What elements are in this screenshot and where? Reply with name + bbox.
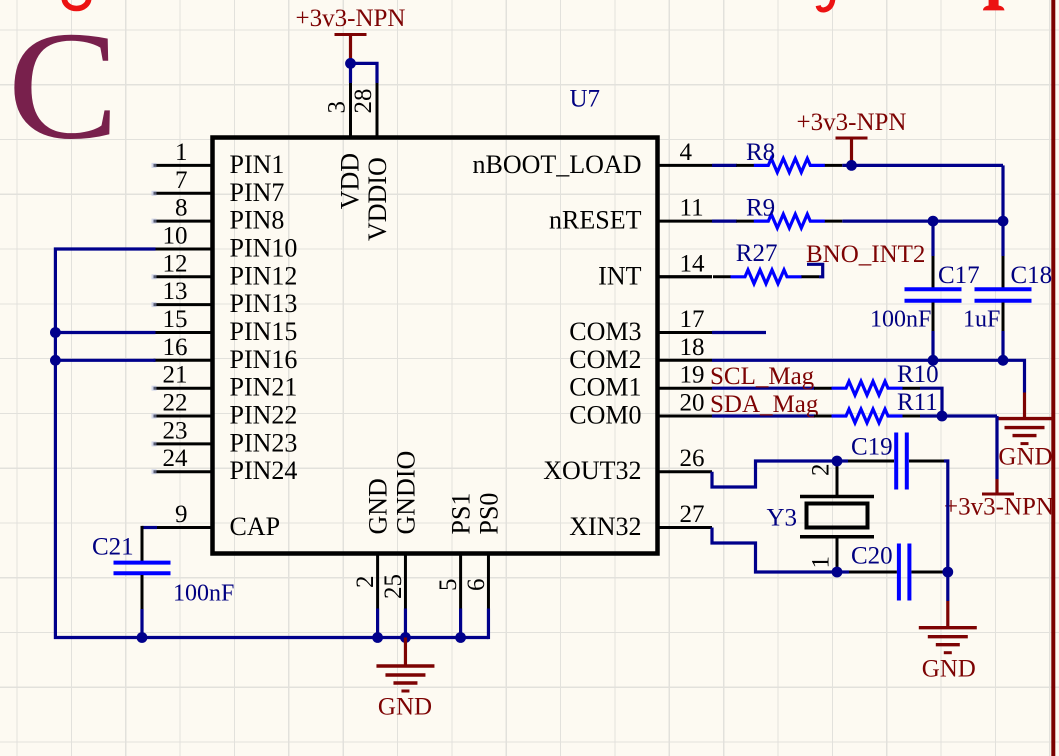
svg-text:+3v3-NPN: +3v3-NPN: [797, 109, 907, 136]
svg-text:PIN12: PIN12: [230, 261, 298, 290]
svg-text:14: 14: [680, 250, 706, 277]
power port +3v3-NPN (top): [296, 5, 406, 60]
svg-text:R10: R10: [897, 361, 939, 388]
svg-text:11: 11: [680, 195, 704, 222]
wire CAP pin to C21: [142, 526, 157, 562]
wire XOUT32 to crystal: [712, 461, 837, 487]
svg-text:BNO_INT2: BNO_INT2: [806, 241, 925, 268]
svg-text:16: 16: [163, 334, 188, 361]
svg-text:C21: C21: [92, 534, 134, 561]
IC U7 body: [213, 138, 658, 554]
wire BNO_INT2 hook: [807, 264, 823, 277]
svg-text:VDDIO: VDDIO: [363, 157, 392, 241]
wire R11 to +3v3: [920, 414, 997, 417]
svg-text:28: 28: [350, 89, 377, 114]
svg-text:23: 23: [163, 417, 188, 444]
svg-text:100nF: 100nF: [870, 307, 931, 333]
pin 10 PIN10: [154, 223, 298, 263]
pin 28 VDDIO: [350, 83, 392, 241]
wire PIN10 net (vertical rail): [55, 249, 488, 638]
junction COM2/C17: [928, 355, 939, 366]
svg-text:1uF: 1uF: [963, 307, 1000, 333]
svg-text:GND: GND: [378, 694, 432, 721]
svg-text:COM1: COM1: [569, 373, 641, 402]
pin 19 COM1: [569, 362, 712, 402]
pin 23 PIN23: [152, 417, 298, 457]
svg-text:R9: R9: [746, 195, 775, 222]
pin 15 PIN15: [154, 306, 298, 346]
junction R8/+3v3: [846, 160, 857, 171]
svg-text:9: 9: [175, 501, 188, 528]
wire pin25 to bus: [404, 609, 407, 638]
junction nRESET/C18: [998, 216, 1009, 227]
wire pin5 to bus: [459, 609, 462, 638]
svg-text:PIN24: PIN24: [230, 456, 298, 485]
svg-text:GND: GND: [998, 444, 1052, 471]
designator C19: [851, 434, 893, 461]
svg-text:10: 10: [163, 223, 188, 250]
pin 24 PIN24: [152, 445, 298, 485]
svg-text:PIN16: PIN16: [230, 345, 298, 374]
capacitor C17: [905, 289, 962, 301]
svg-text:GNDIO: GNDIO: [391, 451, 420, 535]
junction C20/GND: [942, 567, 953, 578]
C18 top lead: [1001, 221, 1004, 287]
svg-text:COM0: COM0: [569, 401, 641, 430]
designator R10: [897, 361, 939, 388]
svg-text:2: 2: [352, 576, 379, 589]
value 100nF (C21): [173, 581, 234, 607]
svg-text:24: 24: [163, 445, 189, 472]
pin 14 INT: [598, 250, 712, 290]
svg-text:XIN32: XIN32: [569, 512, 641, 541]
crystal pin number 2: [808, 464, 835, 477]
wire down to nRESET net: [1001, 165, 1004, 221]
svg-text:17: 17: [680, 306, 705, 333]
svg-text:COM3: COM3: [569, 317, 641, 346]
svg-text:R11: R11: [897, 389, 938, 416]
pin 12 PIN12: [152, 250, 298, 290]
power port +3v3-NPN (pullups): [944, 479, 1054, 521]
resistor R8: [736, 159, 842, 173]
svg-text:13: 13: [163, 278, 188, 305]
pin 26 XOUT32: [543, 445, 712, 485]
svg-text:C19: C19: [851, 434, 893, 461]
svg-text:GND: GND: [922, 656, 976, 683]
svg-text:+3v3-NPN: +3v3-NPN: [944, 494, 1054, 521]
pin 6 PS0: [463, 493, 504, 609]
pin 4 nBOOT_LOAD: [473, 139, 713, 179]
pin 11 nRESET: [549, 195, 712, 235]
designator R8: [746, 139, 775, 166]
resistor R11: [814, 409, 920, 423]
svg-text:PIN15: PIN15: [230, 317, 298, 346]
pin 7 PIN7: [152, 167, 285, 207]
svg-text:18: 18: [680, 334, 705, 361]
svg-text:GND: GND: [364, 478, 393, 534]
junction pin25/bus: [400, 632, 411, 643]
svg-text:VDD: VDD: [336, 153, 365, 209]
pin 2 GND: [352, 478, 393, 608]
svg-text:PIN23: PIN23: [230, 428, 298, 457]
power port +3v3-NPN (R8): [797, 109, 907, 162]
resistor R10: [814, 381, 920, 395]
pin 20 COM0: [569, 390, 712, 430]
designator C18: [1011, 262, 1053, 289]
svg-text:COM2: COM2: [569, 345, 641, 374]
pin 9 CAP: [154, 501, 281, 541]
svg-text:CAP: CAP: [230, 512, 281, 541]
wire R9 to C17/C18: [842, 220, 1003, 223]
svg-text:C20: C20: [851, 543, 893, 570]
wire PIN16 stub: [55, 359, 155, 362]
junction COM2/C18: [998, 355, 1009, 366]
C17 bottom lead: [932, 303, 935, 361]
pin 25 GNDIO: [380, 451, 421, 609]
pin 18 COM2: [569, 334, 712, 374]
crystal pin number 1: [808, 556, 835, 569]
wire pin4 to R8: [712, 164, 737, 167]
junction at PIN15 rail: [50, 327, 61, 338]
wire PIN15 stub: [55, 331, 155, 334]
value 1uF (C18): [963, 307, 1000, 333]
svg-text:1: 1: [175, 139, 188, 166]
wire C19 to C20: [944, 461, 948, 572]
designator R11: [897, 389, 938, 416]
wire COM2 net: [712, 360, 1025, 392]
designator C21: [92, 534, 134, 561]
svg-text:C18: C18: [1011, 262, 1053, 289]
svg-text:15: 15: [163, 306, 188, 333]
junction C21/rail: [137, 632, 148, 643]
junction at PIN16 rail: [50, 355, 61, 366]
value 100nF (C17): [870, 307, 931, 333]
svg-text:R27: R27: [736, 240, 778, 267]
designator U7: [570, 86, 601, 113]
net label SCL_Mag: [710, 363, 815, 390]
ground GND (crystal): [919, 601, 977, 683]
wire R8 to +3v3 junction: [842, 164, 1003, 167]
wire R10 to R11 out: [920, 388, 942, 416]
pin 21 PIN21: [152, 362, 298, 402]
wire +3v3 drop: [995, 416, 998, 479]
junction pin2/bus: [372, 632, 383, 643]
wire pin11 to R9: [712, 220, 737, 223]
sheet border (right edge): [1051, 0, 1055, 756]
svg-text:R8: R8: [746, 139, 775, 166]
resistor R27: [660, 270, 820, 284]
red title fragment g-bowl: [64, 0, 88, 9]
capacitor C18: [975, 289, 1032, 301]
svg-text:26: 26: [680, 445, 705, 472]
net label SDA_Mag: [710, 391, 819, 418]
wire pin20 SDA: [712, 414, 815, 417]
svg-text:PIN13: PIN13: [230, 289, 298, 318]
svg-text:PIN21: PIN21: [230, 373, 298, 402]
designator Y3: [767, 505, 798, 532]
svg-text:C: C: [8, 0, 120, 171]
pin 22 PIN22: [152, 390, 298, 430]
svg-text:PS1: PS1: [447, 493, 476, 535]
crystal Y3: [800, 461, 874, 572]
svg-text:PIN1: PIN1: [230, 150, 285, 179]
resistor R9: [736, 214, 842, 228]
red title fragment y-tail: [818, 0, 833, 10]
C17 top lead: [931, 221, 934, 287]
ground GND (right): [996, 393, 1054, 471]
svg-text:C17: C17: [938, 262, 980, 289]
svg-text:8: 8: [175, 195, 188, 222]
svg-text:27: 27: [680, 501, 705, 528]
wire XIN32 to crystal: [712, 528, 837, 573]
title fragment letter C: [8, 0, 120, 171]
svg-text:U7: U7: [570, 86, 601, 113]
junction crystal bottom: [832, 567, 843, 578]
svg-text:1: 1: [808, 556, 835, 569]
pin 13 PIN13: [152, 278, 298, 318]
wire COM3 stub: [712, 331, 766, 334]
pin 16 PIN16: [154, 334, 298, 374]
svg-text:Y3: Y3: [767, 505, 798, 532]
wire pin19 SCL: [712, 387, 815, 390]
pin 1 PIN1: [152, 139, 285, 179]
wire VDD net + junction: [345, 58, 377, 83]
wire C20 junction to GND: [944, 572, 948, 601]
pin 27 XIN32: [569, 501, 712, 541]
pin 17 COM3: [569, 306, 712, 346]
junction pin5/bus: [455, 632, 466, 643]
svg-text:7: 7: [175, 167, 188, 194]
capacitor C21: [114, 563, 171, 574]
C21 lead + wire to GND rail: [141, 575, 144, 638]
ground GND (bottom center): [376, 638, 434, 721]
junction nRESET/C17: [928, 216, 939, 227]
wire pin6 to bus: [487, 609, 490, 640]
svg-text:PIN22: PIN22: [230, 401, 298, 430]
svg-text:25: 25: [380, 574, 407, 599]
svg-text:2: 2: [808, 464, 835, 477]
svg-text:19: 19: [680, 362, 705, 389]
capacitor C20: [899, 544, 910, 601]
svg-text:12: 12: [163, 250, 188, 277]
junction R10/R11: [937, 411, 948, 422]
svg-text:100nF: 100nF: [173, 581, 234, 607]
pin 5 PS1: [435, 493, 476, 609]
svg-text:21: 21: [163, 362, 188, 389]
svg-text:PIN7: PIN7: [230, 178, 285, 207]
svg-text:XOUT32: XOUT32: [543, 456, 641, 485]
net label BNO_INT2: [806, 241, 925, 268]
svg-text:PIN10: PIN10: [230, 234, 298, 263]
svg-text:22: 22: [163, 390, 188, 417]
svg-text:20: 20: [680, 390, 705, 417]
svg-text:nRESET: nRESET: [549, 206, 642, 235]
designator R27: [736, 240, 778, 267]
svg-text:3: 3: [324, 101, 351, 114]
svg-text:4: 4: [680, 139, 693, 166]
svg-text:PIN8: PIN8: [230, 206, 285, 235]
capacitor C19: [896, 433, 907, 490]
svg-text:PS0: PS0: [474, 493, 503, 535]
pin 3 VDD: [324, 83, 365, 209]
svg-text:nBOOT_LOAD: nBOOT_LOAD: [473, 150, 642, 179]
designator R9: [746, 195, 775, 222]
C19 leads: [837, 459, 944, 462]
svg-text:SCL_Mag: SCL_Mag: [710, 363, 815, 390]
designator C20: [851, 543, 893, 570]
C20 leads: [837, 570, 944, 573]
svg-text:+3v3-NPN: +3v3-NPN: [296, 5, 406, 32]
designator C17: [938, 262, 980, 289]
svg-text:6: 6: [463, 579, 490, 592]
svg-text:5: 5: [435, 579, 462, 592]
C18 bottom lead: [1002, 303, 1005, 361]
wire pin2 to bus: [376, 609, 379, 638]
red title fragment p-foot: [983, 0, 1005, 10]
pin 8 PIN8: [152, 195, 285, 235]
junction crystal top: [832, 456, 843, 467]
svg-text:INT: INT: [598, 261, 641, 290]
svg-text:SDA_Mag: SDA_Mag: [710, 391, 819, 418]
